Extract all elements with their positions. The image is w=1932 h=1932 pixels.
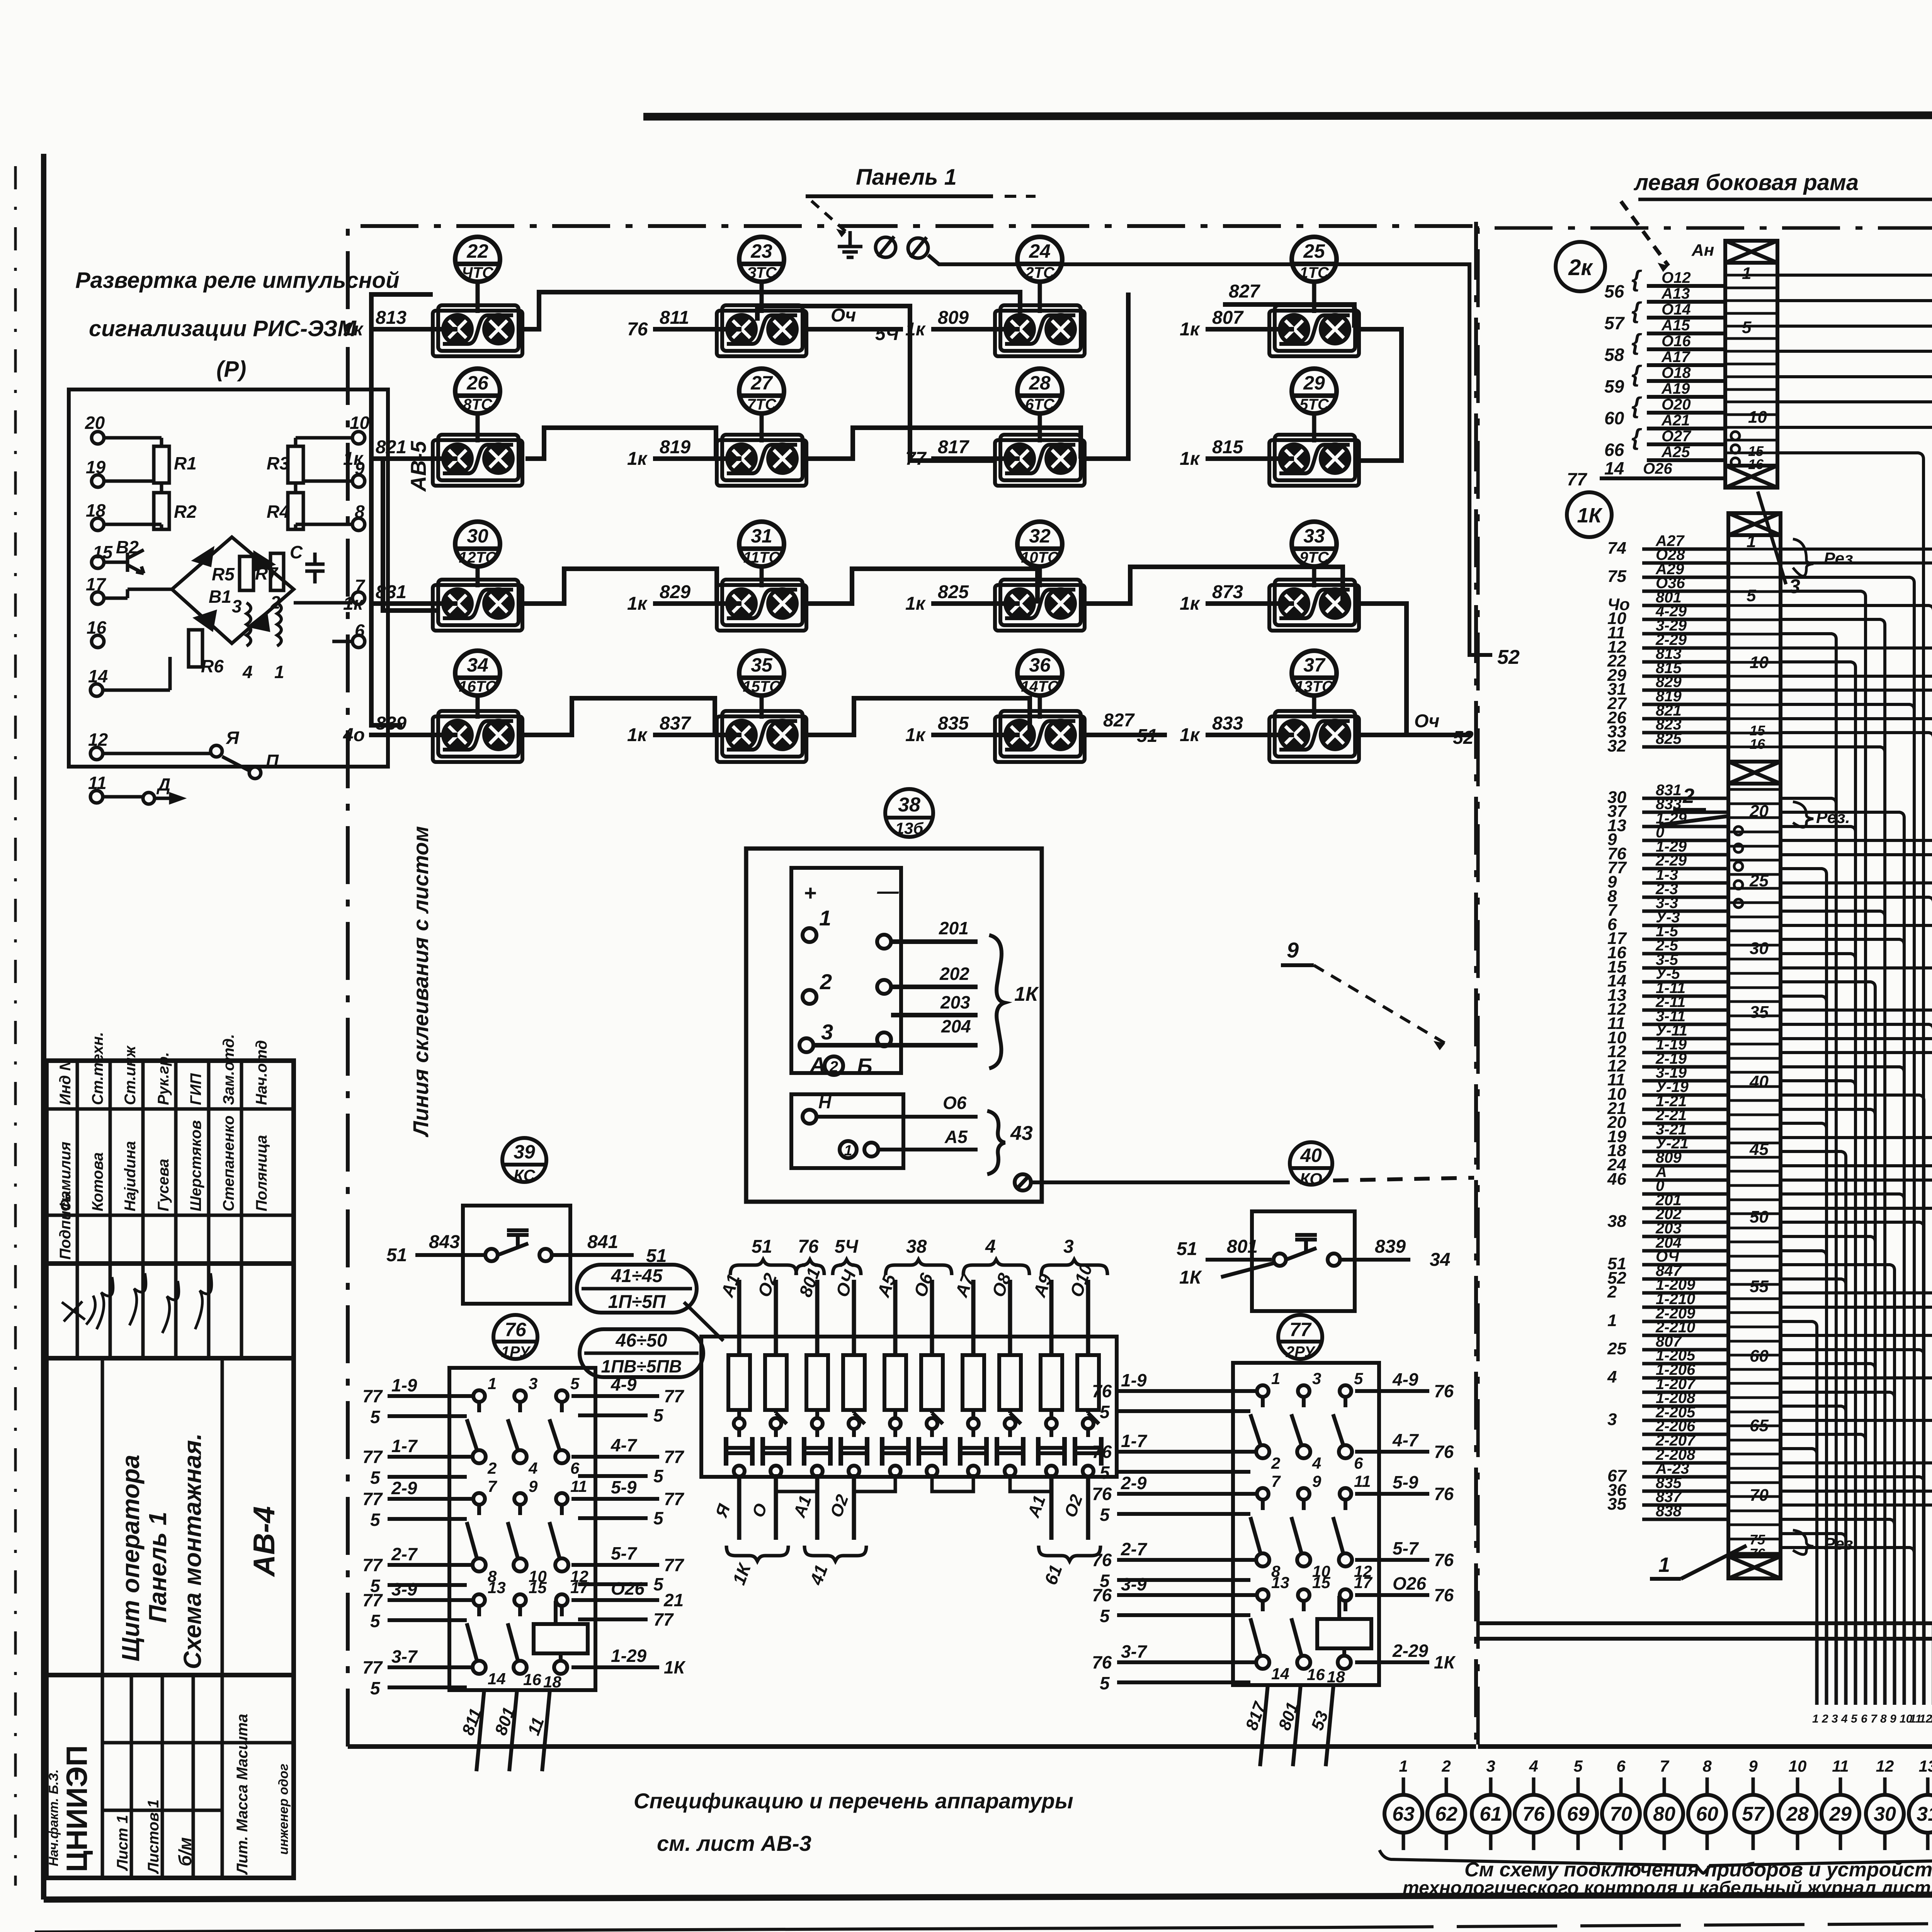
contact 15-16 xyxy=(514,1594,526,1616)
leader line xyxy=(684,1302,723,1341)
fuse unit 41-50-5 xyxy=(1038,1355,1101,1476)
svg-text:1к: 1к xyxy=(1180,319,1201,340)
wire 1К feeder xyxy=(1781,883,1932,1623)
svg-text:5-7: 5-7 xyxy=(1393,1538,1419,1558)
svg-text:АВ-4: АВ-4 xyxy=(247,1506,281,1577)
svg-text:2ТС: 2ТС xyxy=(1025,264,1055,281)
lamp indicator 26/8ТС xyxy=(455,369,500,413)
svg-text:Н: Н xyxy=(818,1092,832,1112)
svg-text:5: 5 xyxy=(653,1405,664,1425)
wire 1-7 left xyxy=(1117,1450,1257,1454)
drawing name xyxy=(117,1433,281,1669)
wire 838 1К xyxy=(1642,1518,1728,1521)
svg-text:14: 14 xyxy=(1604,458,1624,478)
wire 2-208 1К xyxy=(1642,1461,1728,1465)
svg-text:76: 76 xyxy=(1092,1381,1112,1401)
wire 1К feeder xyxy=(1781,1222,1924,1623)
wire stub xyxy=(1854,1623,1857,1705)
wire О26 right xyxy=(1355,1593,1429,1597)
wire 1К feeder xyxy=(1781,1095,1924,1623)
wire 829 1К xyxy=(1642,689,1728,692)
wire 801 bottom xyxy=(509,1690,517,1771)
svg-text:6ТС: 6ТС xyxy=(1025,396,1055,413)
svg-text:Листов 1: Листов 1 xyxy=(145,1799,162,1874)
svg-text:1РУ: 1РУ xyxy=(501,1344,531,1361)
wire 5-9 right xyxy=(571,1497,659,1501)
terminal circle 76 xyxy=(1515,1795,1553,1833)
svg-text:Нач.факт. Б.З.: Нач.факт. Б.З. xyxy=(46,1769,61,1866)
wire У-19 1К xyxy=(1642,1094,1728,1097)
svg-text:33: 33 xyxy=(1303,525,1325,547)
svg-text:3: 3 xyxy=(1312,1369,1321,1388)
svg-text:А17: А17 xyxy=(1661,349,1690,366)
svg-text:12: 12 xyxy=(88,730,108,750)
svg-text:5: 5 xyxy=(1100,1402,1110,1422)
svg-text:1: 1 xyxy=(844,1143,852,1159)
wire 5-9 right xyxy=(1355,1492,1429,1496)
empty circle sym 2 xyxy=(908,237,928,258)
wire stub 837 xyxy=(653,733,742,737)
wire А7 xyxy=(971,1280,976,1355)
svg-text:4: 4 xyxy=(528,1459,537,1477)
lamp pair 26 xyxy=(433,435,522,486)
wire row3 c xyxy=(1086,567,1343,604)
svg-text:46: 46 xyxy=(1607,1170,1626,1189)
svg-text:202: 202 xyxy=(939,964,969,984)
relay unit 76/1РУ circle xyxy=(493,1315,537,1359)
relay coil 76 xyxy=(534,1624,588,1653)
panel 1 boundary xyxy=(348,222,1476,1747)
wire 1К feeder xyxy=(1781,1449,1817,1623)
svg-text:3: 3 xyxy=(1832,1713,1838,1725)
svg-text:Панель 1: Панель 1 xyxy=(144,1512,172,1623)
lamp pair 27 xyxy=(717,435,806,486)
terminal circle 63 xyxy=(1384,1795,1422,1833)
wire 821 1К xyxy=(1642,717,1728,721)
svg-text:18: 18 xyxy=(1327,1668,1345,1686)
wire 1-210 1К xyxy=(1642,1306,1728,1309)
wire 3-11 1К xyxy=(1642,1023,1728,1026)
svg-text:А5: А5 xyxy=(944,1127,968,1147)
svg-text:Наjudина: Наjudина xyxy=(122,1141,139,1211)
svg-text:б/м: б/м xyxy=(175,1837,195,1866)
contact 9-10 xyxy=(1291,1488,1310,1566)
wire 1-29 right xyxy=(571,1665,659,1669)
svg-text:829: 829 xyxy=(660,582,690,602)
contact 3-4 xyxy=(1291,1385,1310,1458)
svg-text:6: 6 xyxy=(1616,1757,1626,1775)
wire stub xyxy=(1835,1623,1838,1705)
wire 4-9 right xyxy=(571,1394,659,1398)
title block table xyxy=(46,1061,294,1878)
wire 1К feeder xyxy=(1781,619,1885,1623)
svg-text:76: 76 xyxy=(1092,1652,1112,1672)
wire stub xyxy=(1903,1623,1906,1705)
svg-text:1: 1 xyxy=(1658,1553,1670,1577)
svg-text:15ТС: 15ТС xyxy=(743,678,781,695)
svg-text:14: 14 xyxy=(88,666,108,686)
contact 7-8 xyxy=(467,1493,486,1571)
svg-text:32: 32 xyxy=(1029,525,1051,547)
fuse unit 41-50-2 xyxy=(804,1355,867,1476)
wire 1К feeder xyxy=(1781,1109,1875,1623)
svg-text:76: 76 xyxy=(1434,1442,1454,1462)
svg-text:2: 2 xyxy=(487,1459,497,1477)
svg-text:50: 50 xyxy=(1750,1207,1769,1226)
wire 1К feeder xyxy=(1781,704,1914,1623)
contact 13-14 xyxy=(1250,1589,1269,1669)
svg-text:левая боковая рама: левая боковая рама xyxy=(1633,170,1859,195)
svg-text:16ТС: 16ТС xyxy=(459,678,497,695)
wire 1К feeder xyxy=(1781,1392,1895,1623)
svg-text:1П÷5П: 1П÷5П xyxy=(608,1292,666,1312)
svg-text:1: 1 xyxy=(1399,1757,1408,1775)
svg-text:28: 28 xyxy=(1029,372,1051,394)
wire 819 1К xyxy=(1642,703,1728,706)
wire 807 1К xyxy=(1642,1348,1728,1352)
lamp indicator 22/ЧТС xyxy=(455,237,500,282)
svg-text:77: 77 xyxy=(362,1447,383,1467)
contact 11-12 xyxy=(1333,1488,1352,1566)
svg-text:1-7: 1-7 xyxy=(1121,1431,1148,1451)
brace 1К xyxy=(726,1546,788,1561)
svg-text:1-9: 1-9 xyxy=(391,1375,417,1395)
svg-text:43: 43 xyxy=(1010,1122,1033,1145)
svg-text:2: 2 xyxy=(820,969,832,994)
wire row2 a xyxy=(383,460,437,611)
wire О26 right xyxy=(571,1598,659,1602)
svg-text:29: 29 xyxy=(1303,372,1325,394)
wire У-21 1К xyxy=(1642,1150,1728,1153)
svg-text:10ТС: 10ТС xyxy=(1021,549,1059,566)
wire 2-209 1К xyxy=(1642,1320,1728,1323)
svg-text:1: 1 xyxy=(1812,1713,1819,1725)
svg-text:2-9: 2-9 xyxy=(1121,1473,1147,1493)
svg-text:52: 52 xyxy=(1453,728,1474,748)
contact 5-6 xyxy=(549,1390,568,1463)
wire О36 1К xyxy=(1642,590,1728,593)
svg-text:20: 20 xyxy=(85,413,105,433)
svg-text:4о: 4о xyxy=(343,725,365,745)
wire row4 b xyxy=(808,698,1030,735)
svg-text:39: 39 xyxy=(514,1141,535,1163)
svg-text:5: 5 xyxy=(370,1510,381,1530)
svg-text:14: 14 xyxy=(1271,1665,1289,1683)
wire У-11 1К xyxy=(1642,1037,1728,1041)
svg-text:1к: 1к xyxy=(343,594,364,614)
svg-text:5Ч: 5Ч xyxy=(835,1236,859,1257)
svg-text:КС: КС xyxy=(514,1166,535,1184)
svg-text:О6: О6 xyxy=(943,1093,967,1113)
wire 1-3 1К xyxy=(1642,881,1728,885)
svg-text:76: 76 xyxy=(1092,1550,1112,1570)
svg-text:809: 809 xyxy=(938,308,969,328)
lamp pair 36 xyxy=(995,711,1085,762)
lamp pair 29 xyxy=(1269,435,1359,486)
svg-text:12ТС: 12ТС xyxy=(459,549,497,566)
wire link xyxy=(932,1474,973,1492)
svg-text:30: 30 xyxy=(1874,1803,1896,1825)
wire stub 809 xyxy=(931,327,1020,332)
svg-text:1: 1 xyxy=(1747,532,1756,551)
svg-text:77: 77 xyxy=(362,1489,383,1509)
wire link xyxy=(1010,1474,1051,1492)
svg-text:29: 29 xyxy=(1829,1803,1852,1825)
wire top bus to 52 xyxy=(928,255,1492,655)
contact 5-6 xyxy=(1333,1385,1352,1458)
svg-text:Поляница: Поляница xyxy=(253,1135,270,1211)
contact 1-2 xyxy=(1250,1385,1269,1458)
svg-text:35: 35 xyxy=(1750,1003,1769,1022)
wire О27 2К xyxy=(1647,442,1725,446)
svg-text:8: 8 xyxy=(1702,1757,1712,1775)
wire А29 1К xyxy=(1642,576,1728,579)
svg-text:3: 3 xyxy=(529,1374,537,1393)
svg-text:4-9: 4-9 xyxy=(1392,1369,1418,1389)
lamp pair 33 xyxy=(1269,580,1359,631)
svg-text:4: 4 xyxy=(985,1236,996,1257)
wire 1-9 left xyxy=(1117,1389,1257,1393)
wire А27 1К xyxy=(1642,548,1728,551)
svg-text:А19: А19 xyxy=(1661,380,1690,397)
svg-text:Ст.техн.: Ст.техн. xyxy=(89,1032,106,1105)
device 38 box xyxy=(746,849,1042,1202)
wire 37 right Оч 52 xyxy=(1360,733,1472,737)
svg-text:Линия склеивания с л: Линия склеивания с листом xyxy=(408,826,433,1138)
svg-text:16: 16 xyxy=(1750,736,1765,752)
wire 1К feeder xyxy=(1781,897,1932,1623)
wire 1-206 1К xyxy=(1642,1376,1728,1380)
wire 2-206 1К xyxy=(1642,1433,1728,1436)
svg-text:843: 843 xyxy=(429,1232,460,1252)
contact 3-4 xyxy=(508,1390,527,1463)
wire 1К feeder xyxy=(1781,1010,1932,1623)
svg-text:2: 2 xyxy=(1682,784,1694,808)
wire row3 b xyxy=(808,569,1037,604)
svg-text:77: 77 xyxy=(664,1555,685,1575)
svg-text:59: 59 xyxy=(1604,376,1624,396)
wire О8 xyxy=(1008,1280,1012,1355)
wire 825 1К xyxy=(1642,745,1728,749)
wire 813 1К xyxy=(1642,660,1728,664)
wire 0 1К xyxy=(1642,1192,1728,1196)
svg-text:А15: А15 xyxy=(1661,317,1690,334)
svg-text:77: 77 xyxy=(1567,469,1588,489)
svg-text:7: 7 xyxy=(1271,1472,1281,1490)
svg-text:77: 77 xyxy=(664,1386,685,1406)
svg-text:22: 22 xyxy=(466,240,488,262)
svg-text:825: 825 xyxy=(938,582,969,602)
svg-text:13: 13 xyxy=(1929,1713,1932,1725)
svg-text:5: 5 xyxy=(653,1508,664,1528)
wire 1К feeder xyxy=(1781,1350,1924,1623)
svg-text:38: 38 xyxy=(898,794,920,816)
svg-text:10: 10 xyxy=(1750,653,1769,672)
brace Рез xyxy=(1793,1530,1813,1554)
svg-text:2: 2 xyxy=(829,1058,838,1075)
svg-text:2-9: 2-9 xyxy=(391,1478,417,1498)
svg-text:63: 63 xyxy=(1392,1803,1415,1825)
wire 1К feeder xyxy=(1781,954,1855,1623)
svg-text:76: 76 xyxy=(1434,1381,1454,1401)
wire stub xyxy=(1893,1623,1896,1705)
wire 817 bottom xyxy=(1260,1685,1268,1766)
wire 2-9 left xyxy=(388,1497,473,1501)
inner terminal block B xyxy=(791,1094,903,1168)
svg-text:16: 16 xyxy=(523,1670,541,1689)
svg-text:25: 25 xyxy=(1303,240,1325,262)
wire 1-207 1К xyxy=(1642,1391,1728,1394)
wire 1К feeder xyxy=(1781,1180,1932,1623)
wire 1К feeder xyxy=(1781,1208,1932,1623)
svg-text:5: 5 xyxy=(370,1468,381,1488)
wire stub 817 xyxy=(931,456,1020,461)
svg-text:17: 17 xyxy=(86,574,107,594)
contact 1-2 xyxy=(467,1390,486,1463)
svg-text:О14: О14 xyxy=(1662,301,1691,318)
svg-text:R2: R2 xyxy=(174,502,197,522)
svg-text:Котова: Котова xyxy=(89,1152,106,1211)
svg-text:77: 77 xyxy=(664,1489,685,1509)
svg-text:815: 815 xyxy=(1212,437,1243,457)
contact 11-12 xyxy=(549,1493,568,1571)
svg-text:1К: 1К xyxy=(1179,1267,1202,1288)
svg-text:2-29: 2-29 xyxy=(1392,1641,1428,1661)
wire У-3 1К xyxy=(1642,924,1728,927)
wire 1К feeder xyxy=(1781,634,1836,1623)
wire 2-7 left xyxy=(388,1563,473,1567)
wire stub 811 xyxy=(653,327,742,332)
lamp indicator 24/2ТС xyxy=(1017,237,1062,282)
svg-text:51: 51 xyxy=(1177,1239,1197,1259)
svg-text:34: 34 xyxy=(1430,1250,1450,1270)
svg-text:1к: 1к xyxy=(627,725,648,745)
svg-text:52: 52 xyxy=(1497,646,1520,668)
svg-text:30: 30 xyxy=(467,525,488,547)
svg-text:Я: Я xyxy=(226,728,240,748)
svg-text:Лит. Масса Масшта: Лит. Масса Масшта xyxy=(234,1714,251,1875)
contact 7-8 xyxy=(1250,1488,1269,1566)
svg-text:56: 56 xyxy=(1604,281,1624,301)
wire 25 to 29 xyxy=(1359,329,1401,461)
wire А9 xyxy=(1049,1280,1054,1355)
svg-text:76: 76 xyxy=(1092,1484,1112,1504)
svg-text:5: 5 xyxy=(1742,318,1752,337)
svg-text:21: 21 xyxy=(663,1590,684,1610)
wire stub xyxy=(1883,1623,1887,1705)
wire 1-29 1К xyxy=(1642,853,1728,857)
wire 2-29 1К xyxy=(1642,867,1728,871)
svg-text:С: С xyxy=(290,542,303,562)
svg-text:R3: R3 xyxy=(267,453,289,473)
wire 1-21 1К xyxy=(1642,1108,1728,1111)
lamp indicator 28/6ТС xyxy=(1017,369,1062,413)
wire 1К feeder xyxy=(1781,911,1885,1623)
left side frame box xyxy=(1478,228,1932,1745)
svg-text:70: 70 xyxy=(1750,1486,1769,1505)
svg-text:37: 37 xyxy=(1303,654,1326,676)
wire 3-19 1К xyxy=(1642,1079,1728,1083)
svg-text:38: 38 xyxy=(1607,1212,1626,1231)
ground symbol xyxy=(838,231,862,257)
svg-text:838: 838 xyxy=(1656,1503,1682,1520)
inner terminal block A xyxy=(791,868,901,1073)
svg-text:2-7: 2-7 xyxy=(1121,1539,1148,1559)
svg-text:R6: R6 xyxy=(201,656,224,676)
svg-text:76: 76 xyxy=(1750,1546,1765,1561)
svg-text:1: 1 xyxy=(819,906,831,930)
wire link xyxy=(776,1474,817,1492)
wire row2 c xyxy=(806,428,1081,459)
wire А1 xyxy=(737,1280,742,1355)
wire 1К feeder xyxy=(1781,812,1904,1623)
svg-text:2: 2 xyxy=(1607,1282,1617,1301)
svg-text:О12: О12 xyxy=(1662,269,1691,286)
svg-text:31: 31 xyxy=(1917,1803,1932,1825)
wire stub xyxy=(1815,1623,1819,1705)
bridge rectifier B1 xyxy=(104,537,352,643)
svg-text:1к: 1к xyxy=(627,594,648,614)
svg-text:27: 27 xyxy=(750,372,773,394)
wire 33 right down to 37 xyxy=(1360,604,1406,735)
wire 2-29 right xyxy=(1355,1660,1429,1664)
terminals left of P box xyxy=(90,432,261,804)
wire 2К feeder xyxy=(1777,427,1932,1623)
brace 4 xyxy=(963,1260,1029,1275)
svg-text:Б: Б xyxy=(857,1054,872,1078)
lamp pair 23 xyxy=(717,305,806,356)
pushbutton KC xyxy=(485,1230,552,1261)
lamp pair 34 xyxy=(433,711,522,762)
svg-text:3-9: 3-9 xyxy=(391,1579,417,1599)
relay P detail box xyxy=(69,389,388,767)
wire 1К feeder xyxy=(1781,1378,1932,1623)
wire left column down xyxy=(371,294,433,725)
svg-text:873: 873 xyxy=(1212,582,1243,602)
wire А5 xyxy=(893,1280,898,1355)
wire О below xyxy=(774,1477,778,1540)
R5 R7 C coils xyxy=(103,553,325,802)
wire 4-29 1К xyxy=(1642,618,1728,621)
svg-text:11: 11 xyxy=(1354,1472,1371,1490)
svg-text:16: 16 xyxy=(87,617,107,638)
svg-text:5-9: 5-9 xyxy=(611,1477,637,1497)
terminal circle 29 xyxy=(1821,1795,1859,1833)
wire stub 807 xyxy=(1206,327,1294,332)
wire 2К feeder xyxy=(1777,301,1932,1623)
svg-text:77: 77 xyxy=(362,1386,383,1406)
lamp indicator 31/11ТС xyxy=(739,522,784,566)
wire 1К feeder xyxy=(1781,827,1855,1623)
svg-text:3: 3 xyxy=(1607,1410,1617,1429)
wire bus horizontal pair xyxy=(1477,1621,1932,1625)
svg-text:80: 80 xyxy=(1653,1803,1675,1825)
svg-text:12: 12 xyxy=(1876,1757,1894,1775)
svg-text:4: 4 xyxy=(1529,1757,1538,1775)
svg-text:7: 7 xyxy=(1660,1757,1669,1775)
wire 1-208 1К xyxy=(1642,1405,1728,1408)
svg-text:Оч: Оч xyxy=(831,305,856,326)
svg-text:204: 204 xyxy=(941,1016,971,1036)
svg-text:1К: 1К xyxy=(1434,1652,1456,1672)
wire 1К feeder xyxy=(1781,1265,1895,1623)
wire stub 815 xyxy=(1206,456,1294,461)
wire 2-210 1К xyxy=(1642,1334,1728,1337)
terminal circle 28 xyxy=(1779,1795,1816,1833)
wire 1К feeder xyxy=(1781,1293,1932,1623)
svg-text:36: 36 xyxy=(1029,654,1051,676)
terminal circle 57 xyxy=(1734,1795,1772,1833)
